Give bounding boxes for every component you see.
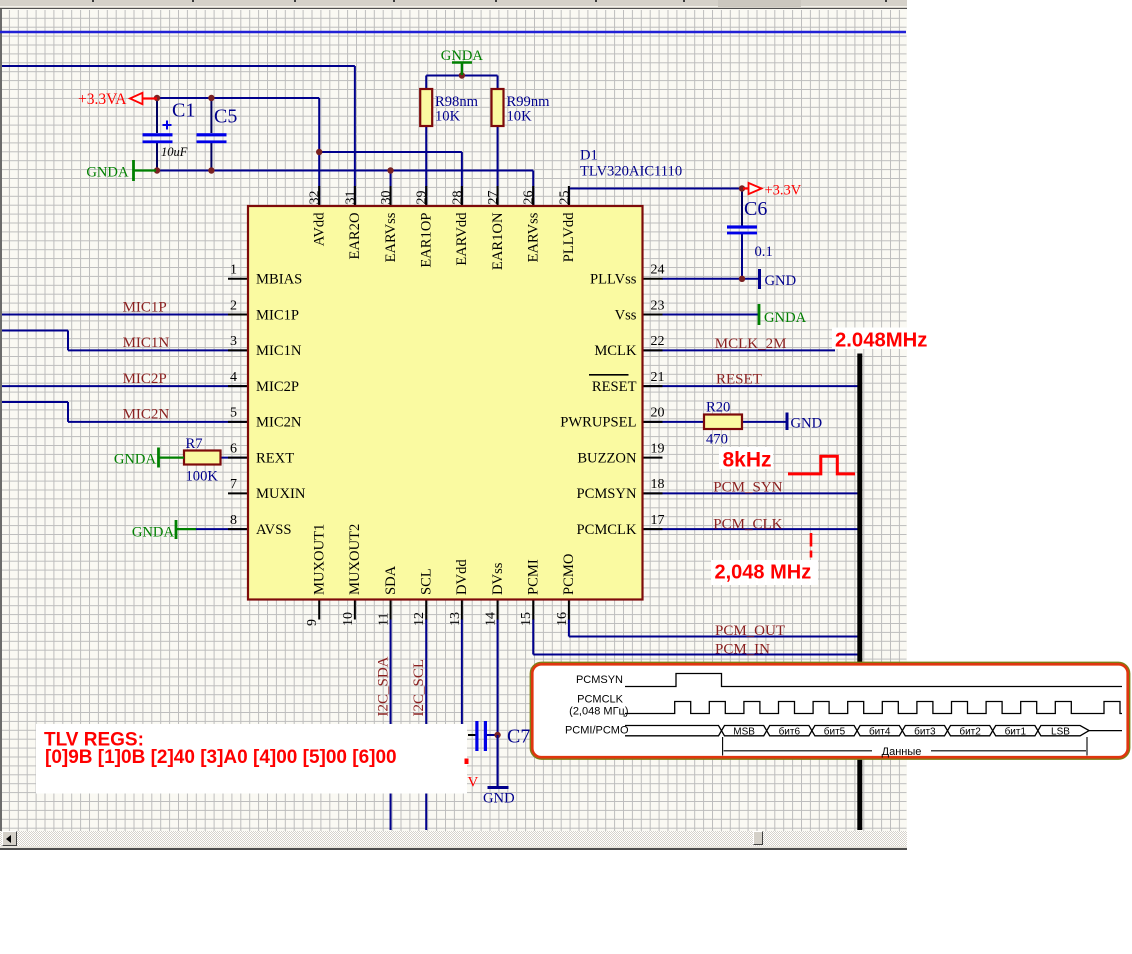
svg-text:5: 5 bbox=[230, 406, 237, 421]
svg-text:GND: GND bbox=[483, 791, 515, 807]
svg-text:1: 1 bbox=[230, 263, 237, 278]
svg-text:PWRUPSEL: PWRUPSEL bbox=[560, 415, 636, 431]
svg-text:10K: 10K bbox=[507, 109, 533, 125]
svg-text:бит1: бит1 bbox=[1005, 725, 1027, 737]
svg-text:+3.3V: +3.3V bbox=[765, 183, 802, 199]
svg-text:MIC1P: MIC1P bbox=[256, 307, 299, 323]
svg-text:TLV320AIC1110: TLV320AIC1110 bbox=[580, 164, 682, 180]
svg-text:25: 25 bbox=[557, 191, 572, 205]
svg-text:10K: 10K bbox=[435, 109, 461, 125]
svg-text:D1: D1 bbox=[580, 148, 598, 164]
svg-text:10: 10 bbox=[341, 612, 356, 626]
svg-text:MBIAS: MBIAS bbox=[256, 272, 302, 288]
svg-text:470: 470 bbox=[706, 432, 728, 448]
svg-text:PCM_SYN: PCM_SYN bbox=[713, 480, 782, 496]
svg-text:PLLVdd: PLLVdd bbox=[561, 212, 577, 262]
svg-text:MIC1N: MIC1N bbox=[123, 335, 170, 351]
svg-text:GND: GND bbox=[791, 416, 823, 432]
svg-text:PCMSYN: PCMSYN bbox=[576, 486, 636, 502]
svg-text:23: 23 bbox=[651, 298, 665, 313]
svg-text:AVSS: AVSS bbox=[256, 522, 291, 538]
svg-text:RESET: RESET bbox=[592, 379, 637, 395]
svg-text:28: 28 bbox=[450, 191, 465, 205]
svg-text:17: 17 bbox=[651, 513, 665, 528]
svg-text:26: 26 bbox=[522, 191, 537, 205]
svg-text:бит6: бит6 bbox=[779, 725, 801, 737]
svg-text:19: 19 bbox=[651, 441, 665, 456]
svg-text:8: 8 bbox=[230, 513, 237, 528]
svg-text:MUXIN: MUXIN bbox=[256, 486, 306, 502]
svg-text:SDA: SDA bbox=[383, 565, 399, 595]
svg-text:MIC2N: MIC2N bbox=[123, 407, 170, 423]
svg-text:4: 4 bbox=[230, 370, 237, 385]
svg-text:7: 7 bbox=[230, 477, 237, 492]
svg-text:30: 30 bbox=[379, 191, 394, 205]
svg-text:PCMCLK: PCMCLK bbox=[577, 694, 624, 706]
svg-text:16: 16 bbox=[555, 612, 570, 626]
svg-text:[0]9B [1]0B [2]40 [3]A0 [4]00: [0]9B [1]0B [2]40 [3]A0 [4]00 [5]00 [6]0… bbox=[45, 747, 397, 768]
svg-text:MCLK: MCLK bbox=[594, 343, 637, 359]
svg-text:PCM_CLK: PCM_CLK bbox=[713, 516, 782, 532]
svg-text:бит5: бит5 bbox=[824, 725, 846, 737]
svg-text:GNDA: GNDA bbox=[132, 525, 175, 541]
svg-text:14: 14 bbox=[484, 612, 499, 626]
svg-text:MUXOUT2: MUXOUT2 bbox=[347, 524, 363, 595]
svg-text:2.048MHz: 2.048MHz bbox=[835, 330, 927, 352]
svg-text:2: 2 bbox=[230, 298, 237, 313]
svg-text:29: 29 bbox=[415, 191, 430, 205]
svg-text:I2C_SDA: I2C_SDA bbox=[376, 656, 392, 716]
svg-text:100K: 100K bbox=[186, 469, 219, 485]
svg-text:18: 18 bbox=[651, 477, 665, 492]
svg-text:2,048 MHz: 2,048 MHz bbox=[715, 562, 812, 584]
svg-text:EAR1OP: EAR1OP bbox=[419, 213, 435, 268]
svg-text:MIC2P: MIC2P bbox=[123, 371, 167, 387]
svg-text:12: 12 bbox=[412, 612, 427, 626]
svg-text:MIC2P: MIC2P bbox=[256, 379, 299, 395]
svg-text:PCMO: PCMO bbox=[561, 554, 577, 595]
svg-text:MIC2N: MIC2N bbox=[256, 415, 302, 431]
svg-text:13: 13 bbox=[448, 612, 463, 626]
svg-text:EARVdd: EARVdd bbox=[454, 212, 470, 266]
svg-text:MIC1N: MIC1N bbox=[256, 343, 302, 359]
svg-text:V: V bbox=[468, 775, 479, 791]
svg-text:бит2: бит2 bbox=[959, 725, 981, 737]
svg-text:9: 9 bbox=[305, 619, 320, 626]
svg-text:27: 27 bbox=[486, 191, 501, 205]
svg-text:REXT: REXT bbox=[256, 450, 294, 466]
svg-text:22: 22 bbox=[651, 334, 665, 349]
svg-text:21: 21 bbox=[651, 370, 665, 385]
svg-text:GNDA: GNDA bbox=[114, 452, 157, 468]
svg-text:+3.3VA: +3.3VA bbox=[78, 91, 127, 108]
svg-text:DVdd: DVdd bbox=[454, 559, 470, 595]
svg-text:PCMCLK: PCMCLK bbox=[576, 522, 636, 538]
svg-text:PCMI: PCMI bbox=[526, 559, 542, 595]
svg-text:31: 31 bbox=[343, 191, 358, 205]
svg-text:MCLK_2M: MCLK_2M bbox=[715, 336, 787, 352]
svg-text:EAR2O: EAR2O bbox=[347, 213, 363, 260]
svg-text:GND: GND bbox=[765, 273, 797, 289]
svg-text:11: 11 bbox=[377, 613, 392, 626]
svg-text:EARVss: EARVss bbox=[383, 212, 399, 262]
svg-text:PLLVss: PLLVss bbox=[590, 272, 637, 288]
svg-text:MSB: MSB bbox=[733, 726, 755, 737]
svg-text:Данные: Данные bbox=[882, 746, 922, 758]
svg-text:10uF: 10uF bbox=[161, 145, 188, 159]
svg-text:I2C_SCL: I2C_SCL bbox=[411, 659, 427, 717]
svg-text:GNDA: GNDA bbox=[764, 310, 807, 326]
svg-text:C1: C1 bbox=[172, 100, 195, 122]
svg-text:6: 6 bbox=[230, 441, 237, 456]
svg-text:C5: C5 bbox=[214, 106, 237, 128]
svg-text:C7: C7 bbox=[507, 726, 530, 748]
svg-text:8kHz: 8kHz bbox=[723, 449, 772, 472]
svg-text:EAR1ON: EAR1ON bbox=[490, 212, 506, 270]
svg-text:(2,048 МГц): (2,048 МГц) bbox=[569, 706, 628, 718]
svg-text:PCM_IN: PCM_IN bbox=[715, 642, 770, 658]
svg-text:GNDA: GNDA bbox=[86, 165, 129, 181]
svg-text:MIC1P: MIC1P bbox=[123, 299, 167, 315]
svg-text:BUZZON: BUZZON bbox=[577, 450, 637, 466]
svg-text:бит4: бит4 bbox=[869, 725, 891, 737]
svg-text:3: 3 bbox=[230, 334, 237, 349]
svg-text:24: 24 bbox=[651, 263, 665, 278]
svg-text:LSB: LSB bbox=[1051, 726, 1070, 737]
svg-text:R7: R7 bbox=[186, 436, 203, 452]
svg-text:DVss: DVss bbox=[490, 562, 506, 595]
svg-text:C6: C6 bbox=[744, 198, 767, 220]
svg-text:SCL: SCL bbox=[419, 568, 435, 595]
svg-text:RESET: RESET bbox=[716, 371, 762, 387]
svg-text:бит3: бит3 bbox=[914, 725, 936, 737]
svg-text:32: 32 bbox=[308, 191, 323, 205]
svg-text:AVdd: AVdd bbox=[312, 212, 328, 246]
svg-text:PCMSYN: PCMSYN bbox=[576, 674, 623, 686]
svg-text:20: 20 bbox=[651, 406, 665, 421]
svg-text:PCMI/PCMO: PCMI/PCMO bbox=[565, 725, 629, 737]
svg-text:15: 15 bbox=[519, 612, 534, 626]
svg-text:R20: R20 bbox=[706, 400, 730, 416]
svg-text:MUXOUT1: MUXOUT1 bbox=[312, 524, 328, 595]
svg-text:Vss: Vss bbox=[615, 307, 637, 323]
svg-text:0.1: 0.1 bbox=[755, 244, 773, 260]
svg-text:EARVss: EARVss bbox=[526, 212, 542, 262]
svg-text:PCM_OUT: PCM_OUT bbox=[715, 623, 785, 639]
